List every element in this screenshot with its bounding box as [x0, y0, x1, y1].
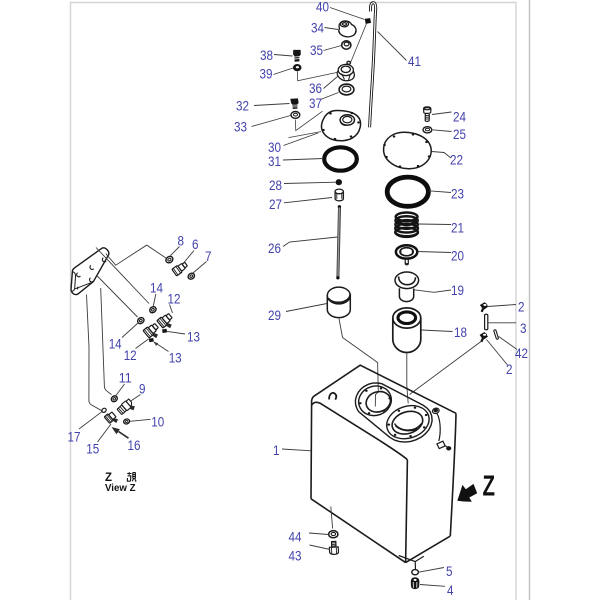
leader line 32: [254, 104, 290, 106]
plate holes: [77, 258, 106, 290]
nut 13 upper: [163, 330, 167, 333]
leader line 15: [98, 424, 112, 442]
hose on right face: [437, 414, 440, 442]
svg-text:36: 36: [309, 81, 322, 96]
axis line cup 29 to tank left opening: [339, 319, 378, 407]
svg-text:32: 32: [236, 99, 249, 114]
svg-text:34: 34: [311, 21, 324, 36]
washer 25: [423, 127, 432, 133]
svg-text:37: 37: [309, 96, 322, 111]
bracket plate: [71, 248, 109, 295]
svg-text:13: 13: [169, 351, 182, 366]
svg-text:31: 31: [268, 154, 281, 169]
bolt 38: [294, 50, 301, 61]
bolt 2 upper: [481, 303, 487, 312]
svg-text:23: 23: [451, 187, 464, 202]
svg-text:10: 10: [151, 414, 164, 429]
pin 3: [485, 314, 488, 330]
washer 33: [291, 112, 300, 119]
svg-text:17: 17: [68, 429, 81, 444]
svg-text:25: 25: [453, 127, 466, 142]
leader line 25: [432, 130, 451, 132]
leader line 42: [499, 337, 517, 350]
svg-text:22: 22: [450, 153, 463, 168]
clip 42: [494, 330, 499, 339]
o-ring 14 upper: [148, 305, 157, 314]
leader line 8: [171, 247, 180, 256]
border frame top: [71, 3, 517, 600]
svg-text:35: 35: [310, 43, 323, 58]
leader line 2 lower to label: [487, 340, 508, 366]
leader line 28: [284, 182, 336, 183]
svg-text:7: 7: [205, 249, 212, 264]
leader line 43: [310, 545, 331, 550]
zigzag leader plate to fitting 6: [106, 245, 167, 265]
leader line 23: [429, 191, 451, 193]
svg-text:30: 30: [268, 140, 281, 155]
cup 29: [327, 287, 350, 318]
leader line 9: [130, 395, 141, 402]
svg-text:18: 18: [454, 325, 467, 340]
washer 44: [329, 531, 338, 538]
kanji 視 hand-drawn: [127, 472, 136, 481]
svg-text:33: 33: [234, 120, 247, 135]
svg-text:38: 38: [260, 48, 273, 63]
leader line 31: [283, 159, 323, 161]
leader line 4: [420, 585, 445, 587]
leader line 5: [419, 568, 445, 573]
leader line 3: [488, 322, 516, 324]
leader line 35: [324, 46, 342, 51]
leader line 39: [274, 68, 294, 75]
fitting 6: [172, 261, 189, 276]
bolt 2 lower: [481, 333, 487, 342]
svg-text:28: 28: [269, 178, 282, 193]
right opening swirl: [395, 424, 422, 431]
leader line 37: [321, 93, 339, 100]
svg-text:20: 20: [451, 249, 464, 264]
leader line 41: [378, 32, 407, 61]
leader line bolt 2 to tank: [410, 342, 482, 395]
svg-text:40: 40: [316, 0, 329, 14]
svg-text:24: 24: [453, 110, 466, 125]
o-ring 14 lower: [136, 316, 145, 325]
leader line 14 lower: [122, 323, 139, 338]
axis line plate to upper fitting group: [96, 248, 149, 304]
bolt 32: [291, 99, 298, 109]
leader line 21: [419, 223, 452, 226]
tank body 1: [311, 365, 456, 562]
arrow 16: [112, 427, 129, 438]
washer 5: [412, 570, 419, 575]
nut 13 lower: [150, 339, 154, 342]
leader line 17: [79, 411, 103, 429]
plug 28: [336, 180, 341, 185]
plate 22 bolt holes: [383, 133, 430, 167]
breather boss on ridge: [432, 407, 440, 414]
clamp 40 on dipstick: [365, 19, 370, 24]
drain boss line bottom-left: [331, 507, 333, 529]
svg-text:3: 3: [520, 321, 527, 336]
leader line 20: [418, 252, 452, 253]
view Z arrow: [457, 484, 477, 502]
fitting 12 upper: [157, 312, 177, 332]
rod 26: [336, 205, 341, 279]
pointer lines 38-39 to cap: [297, 72, 339, 81]
svg-text:29: 29: [268, 308, 281, 323]
leader line 30: [284, 133, 319, 146]
svg-text:14: 14: [109, 337, 122, 352]
svg-text:2: 2: [518, 300, 525, 315]
tank lifting hook: [329, 393, 336, 400]
svg-text:4: 4: [447, 583, 454, 598]
leader line 1: [282, 449, 311, 451]
leader line 26: [283, 237, 338, 247]
svg-text:42: 42: [515, 346, 528, 361]
leader line 36: [324, 77, 338, 89]
leader line 12 upper: [170, 305, 173, 314]
leader line 44: [309, 533, 329, 535]
svg-text:13: 13: [187, 330, 200, 345]
bushing 35: [342, 41, 351, 49]
leader line 18: [421, 330, 452, 332]
svg-text:39: 39: [260, 66, 273, 81]
leader line 11: [116, 384, 125, 396]
tank bottom corner detail: [399, 556, 424, 571]
spring 21: [395, 213, 418, 237]
leader line 7: [193, 262, 207, 274]
strainer 18: [393, 308, 421, 353]
pipe line to fitting 15 group: [87, 295, 103, 411]
cover plate 22: [384, 132, 432, 168]
elbow fitting 15: [104, 411, 119, 426]
leader line 29: [286, 304, 327, 312]
svg-text:19: 19: [451, 283, 464, 298]
nut 39: [294, 65, 301, 71]
svg-text:12: 12: [124, 348, 137, 363]
svg-text:5: 5: [446, 564, 453, 579]
axis line plate to lower fitting group: [96, 275, 137, 317]
tank right opening: [389, 408, 426, 438]
leader line 12 lower: [136, 339, 149, 349]
svg-text:11: 11: [119, 371, 132, 386]
dipstick 41: [370, 3, 376, 128]
o-ring 31: [324, 147, 357, 170]
leader line 14 upper: [153, 294, 156, 306]
axis line strainer 18 to tank right opening: [407, 354, 408, 404]
svg-text:8: 8: [178, 234, 185, 249]
collar 27: [335, 189, 343, 201]
o-ring 8: [165, 255, 175, 264]
tank left opening ring: [355, 382, 395, 420]
axis line from clamp 40 to cap 36: [350, 24, 366, 64]
svg-text:43: 43: [289, 549, 302, 564]
svg-text:14: 14: [150, 281, 163, 296]
bolt 24: [424, 107, 431, 122]
o-ring 17: [101, 407, 107, 413]
filler cap 36: [337, 61, 354, 80]
pointer lines 32-33 to plate 30: [289, 111, 323, 137]
svg-text:44: 44: [289, 530, 302, 545]
leader line 24: [432, 112, 452, 115]
leader line 10: [130, 419, 151, 421]
fitting 12 lower: [143, 322, 163, 342]
right opening bolt holes: [388, 407, 428, 438]
tank top oval plate: [355, 383, 432, 442]
breather cap 34: [339, 21, 356, 37]
svg-text:12: 12: [168, 292, 181, 307]
plug 4: [411, 578, 419, 589]
fitting 9: [117, 398, 137, 418]
svg-text:15: 15: [86, 442, 99, 457]
svg-text:9: 9: [139, 382, 146, 397]
o-ring 11: [110, 395, 118, 403]
svg-text:2: 2: [506, 362, 513, 377]
svg-text:27: 27: [269, 197, 282, 212]
tube 19: [395, 272, 419, 302]
leader line 13 upper: [167, 331, 186, 334]
left opening bolt holes: [359, 387, 391, 414]
ring 37: [339, 84, 354, 95]
svg-text:16: 16: [128, 438, 141, 453]
svg-text:View Z: View Z: [105, 482, 136, 494]
svg-text:6: 6: [192, 237, 199, 252]
hose connector: [437, 441, 451, 450]
svg-text:1: 1: [273, 443, 280, 458]
leader line 34: [325, 28, 339, 30]
leader line 27: [284, 198, 332, 203]
leader line 33: [252, 116, 291, 127]
svg-text:21: 21: [451, 221, 464, 236]
leader line 22: [432, 152, 452, 159]
pipe line to fitting 9 group: [101, 288, 112, 395]
leader line 19: [414, 290, 451, 293]
border frame right outer: [529, 0, 531, 600]
bolt 43: [329, 541, 338, 554]
cover plate 30: [322, 110, 361, 140]
svg-text:Z: Z: [483, 471, 496, 503]
tank left opening: [363, 388, 393, 415]
leader line 13 lower with arrow: [154, 342, 169, 352]
svg-text:41: 41: [408, 54, 421, 69]
o-ring 7: [187, 272, 196, 281]
grommet 20: [396, 245, 417, 265]
leader line 6: [184, 251, 195, 264]
leader line 2 upper: [488, 305, 517, 307]
svg-text:26: 26: [268, 241, 281, 256]
tank right opening ring: [382, 400, 433, 444]
o-ring 10: [123, 418, 130, 425]
leader line 38: [274, 55, 293, 57]
plate 30 bolt holes: [322, 112, 360, 140]
leader line 40: [330, 8, 365, 20]
o-ring 23: [387, 177, 428, 206]
